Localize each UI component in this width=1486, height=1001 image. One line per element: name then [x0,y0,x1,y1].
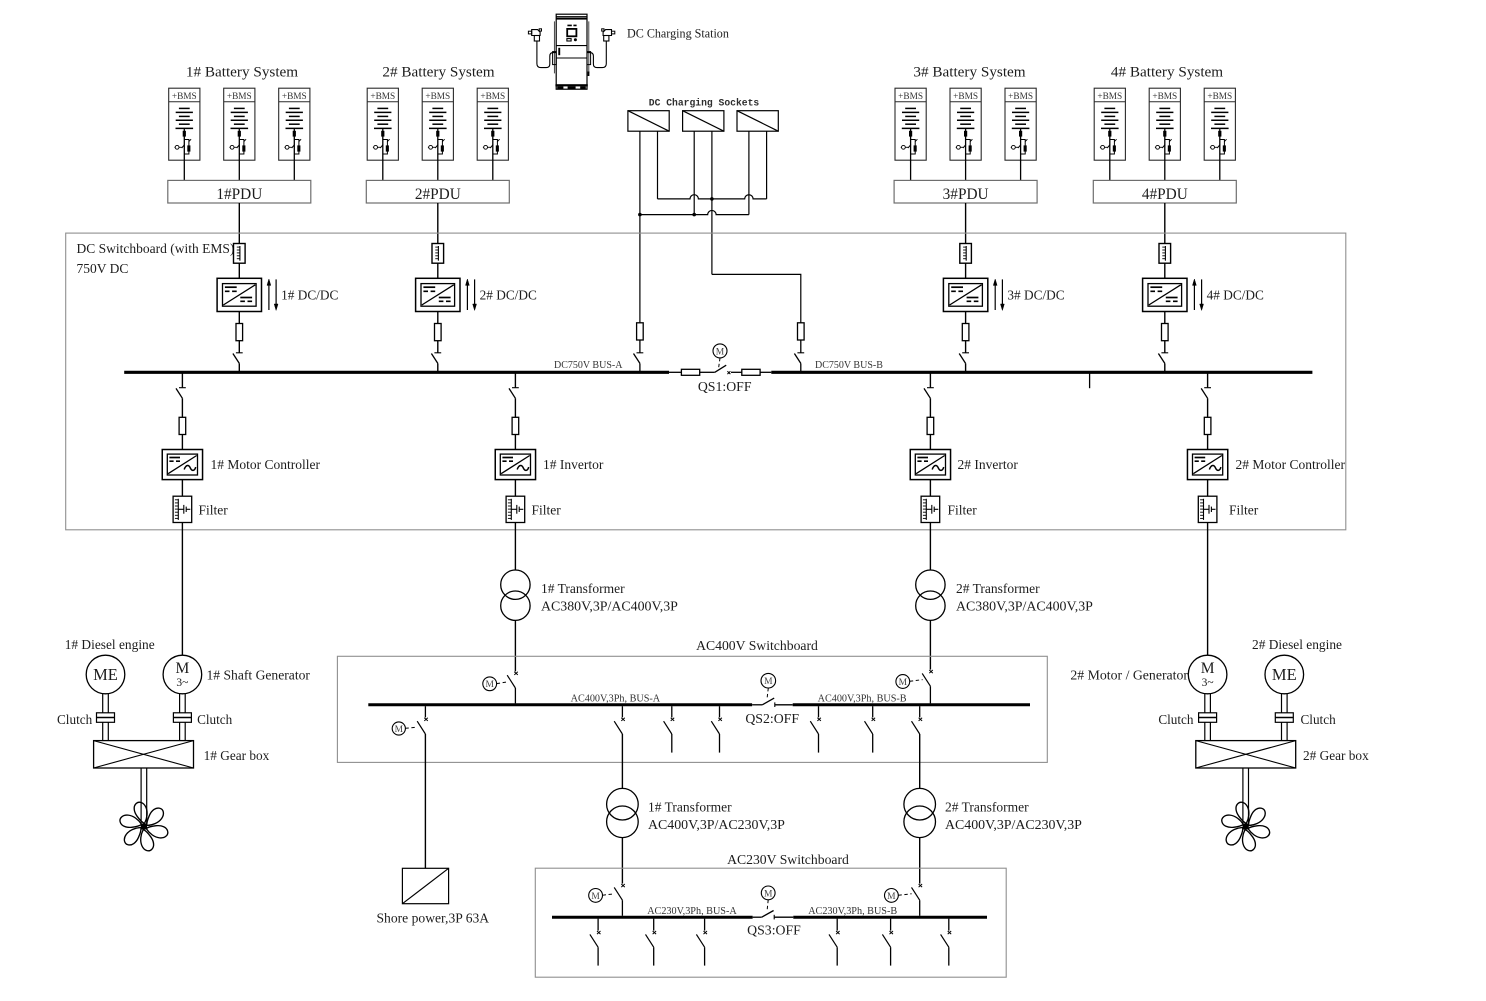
svg-text:1# Diesel engine: 1# Diesel engine [65,637,155,652]
svg-text:Clutch: Clutch [57,712,93,727]
svg-text:Filter: Filter [532,503,562,518]
wire fuse to switch 1# [238,341,240,353]
wire battery 4.3 to 4#PDU [1219,160,1221,180]
svg-text:AC230V,3Ph, BUS-B: AC230V,3Ph, BUS-B [808,906,897,917]
svg-text:Clutch: Clutch [1158,712,1194,727]
incomer breaker from T4 [919,884,923,887]
wire isolator to 2# DC/DC [437,263,439,278]
bus tie QS3 [753,911,794,920]
wire converter to filter (1# Motor Controller) [181,480,183,497]
wire bus to disconnector (1# Motor Controller) [181,374,183,388]
2# motor / generator M3~ [1188,655,1227,694]
motor operator incomer T3 [589,889,603,903]
AC230V spare feeder at x=890.6 [890,919,892,931]
svg-text:1#PDU: 1#PDU [216,186,262,203]
wire bus to disconnector (2# Invertor) [929,374,931,388]
incomer breaker from T3 [621,884,625,887]
svg-text:QS2:OFF: QS2:OFF [745,711,799,726]
4#PDU box [1093,180,1236,203]
svg-text:1# Transformer: 1# Transformer [648,799,732,814]
svg-text:2# DC/DC: 2# DC/DC [480,287,537,302]
switch chgB to bus B [797,352,804,354]
feeder to 2# 400/230 transformer [919,706,921,717]
svg-text:AC400V,3P/AC230V,3P: AC400V,3P/AC230V,3P [945,818,1082,833]
shaft ME2 to clutch [1281,694,1283,713]
svg-text:AC400V Switchboard: AC400V Switchboard [696,638,818,653]
disconnector 4# to DC bus [1161,352,1168,354]
svg-text:2# Battery System: 2# Battery System [382,63,494,80]
junction net-A at socket2 [692,213,696,217]
wire 2# DC/DC to fuse [437,312,439,324]
DC switchboard enclosure [66,233,1346,530]
svg-text:+BMS: +BMS [1207,92,1232,102]
wire fuse to switch 4# [1164,341,1166,353]
wire 2# motor controller filter to motor/generator [1207,523,1209,656]
wire socket1 right down [657,131,659,199]
shaft clutch to gearbox (ME1) [102,722,104,740]
wire 3#PDU to DC/DC input [965,203,967,244]
wire battery 4.2 to 4#PDU [1164,160,1166,180]
AC230V spare feeder at x=653.7 [653,919,655,931]
wire battery 3.1 to 3#PDU [910,160,912,180]
disconnector 1# Motor Controller [179,387,186,389]
svg-text:Filter: Filter [1229,503,1259,518]
shaft ME to clutch [102,694,104,713]
wire battery 2.2 to 2#PDU [437,160,439,180]
converter 1# Motor Controller [162,450,202,480]
wire 4#PDU to DC/DC input [1164,203,1166,244]
svg-text:M: M [764,677,773,687]
wire chgB fuse to switch [800,340,802,353]
1# shaft generator M3~ [163,655,202,694]
svg-text:3~: 3~ [1202,677,1214,689]
svg-text:AC400V,3Ph, BUS-A: AC400V,3Ph, BUS-A [571,694,661,705]
DC charging socket 1 [628,111,669,132]
battery module 4.3 [1204,88,1235,160]
svg-text:DC Switchboard (with EMS): DC Switchboard (with EMS) [77,241,235,256]
wire battery 1.3 to 1#PDU [293,160,295,180]
wire isolator to 4# DC/DC [1164,263,1166,278]
spare feeder B2 [872,706,874,717]
AC230V BUS-A [552,916,753,919]
svg-text:M: M [395,725,404,735]
wire converter to filter (2# Motor Controller) [1207,480,1209,497]
shaft generator to clutch [179,694,181,713]
svg-text:3#PDU: 3#PDU [943,186,989,203]
DC charging socket 3 [737,111,778,132]
bidirectional arrows 2# DC/DC [466,283,468,310]
propeller shaft 2 [1242,768,1244,824]
filter 1# Invertor [506,496,525,522]
2#PDU box [366,180,509,203]
svg-text:AC400V,3P/AC230V,3P: AC400V,3P/AC230V,3P [648,818,785,833]
AC230V switchboard enclosure [535,868,1006,977]
svg-text:+BMS: +BMS [1152,92,1177,102]
wire socket2 right down [711,131,713,199]
wire 3# DC/DC to fuse [965,312,967,324]
fuse 2# Motor Controller [1204,417,1211,434]
bus tie QS2 [752,698,793,707]
svg-text:+BMS: +BMS [1008,92,1033,102]
wire converter to filter (2# Invertor) [929,480,931,497]
1#PDU box [168,180,311,203]
svg-text:DC750V BUS-A: DC750V BUS-A [554,360,623,371]
svg-text:1# Motor Controller: 1# Motor Controller [211,457,321,472]
wire bus to disconnector (2# Motor Controller) [1207,374,1209,388]
wire fuse to switch 3# [965,341,967,353]
svg-text:2# Motor / Generator: 2# Motor / Generator [1070,668,1188,683]
wire battery 3.3 to 3#PDU [1020,160,1022,180]
DC charging station pictograph [528,14,614,89]
switch chgA to bus A [637,352,644,354]
svg-text:M: M [1201,660,1215,677]
svg-text:+BMS: +BMS [172,92,197,102]
1# gear box [94,741,194,768]
incomer breaker from T1 [514,672,518,675]
battery module 3.2 [950,88,981,160]
disconnector 3# to DC bus [962,352,969,354]
battery module 4.2 [1149,88,1180,160]
wire socket1 left to DC bus A fuse [639,131,641,323]
motor operator shore feeder [392,722,405,735]
wire socket3 right down [766,131,768,199]
converter 3# DC/DC [943,278,987,311]
battery module 1.1 [169,88,200,160]
svg-text:+BMS: +BMS [1097,92,1122,102]
wire isolator to 1# DC/DC [238,263,240,278]
svg-text:2# Diesel engine: 2# Diesel engine [1252,637,1342,652]
transformer T3 400/230 [607,788,639,820]
isolator 3# DC/DC input [960,244,972,264]
svg-text:QS3:OFF: QS3:OFF [747,923,801,938]
1# diesel engine ME [86,655,125,694]
wire 1#PDU to DC/DC input [238,203,240,244]
svg-text:DC Charging Station: DC Charging Station [627,27,729,41]
svg-text:+BMS: +BMS [227,92,252,102]
fuse 3# DC/DC output [962,324,969,341]
svg-text:3# Battery System: 3# Battery System [913,63,1025,80]
shaft clutch to gearbox (ME2) [1281,722,1283,740]
svg-text:2#PDU: 2#PDU [415,186,461,203]
AC400V BUS-B [793,703,1030,706]
svg-text:M: M [591,892,600,902]
svg-text:M: M [764,889,773,899]
motor operator QS3 [761,886,775,900]
svg-text:M: M [887,892,896,902]
svg-text:ME: ME [1272,665,1297,684]
propeller shaft 1 [140,768,142,824]
wire fuse to converter (2# Motor Controller) [1207,435,1209,450]
wire disconnector to fuse (2# Motor Controller) [1207,398,1209,417]
2# gear box [1196,741,1296,768]
clutch right of 1# gear box [173,713,191,723]
battery module 2.3 [477,88,508,160]
fuse 4# DC/DC output [1162,324,1169,341]
filter 2# Motor Controller [1198,496,1217,522]
svg-text:+BMS: +BMS [282,92,307,102]
svg-text:+BMS: +BMS [370,92,395,102]
wire fuse to converter (2# Invertor) [929,435,931,450]
svg-text:Filter: Filter [948,503,978,518]
fuse 1# Invertor [512,417,519,434]
AC230V spare feeder at x=948.8 [948,919,950,931]
clutch left of 2# gear box [1199,713,1217,723]
AC230V BUS-B [793,916,987,919]
svg-text:Clutch: Clutch [1301,712,1337,727]
motor operator QS2 [761,673,776,688]
wire T1 to AC400V incomer [514,620,516,671]
2# diesel engine ME [1265,655,1304,694]
svg-text:+BMS: +BMS [480,92,505,102]
svg-text:2# Invertor: 2# Invertor [958,457,1019,472]
shaft M2 to clutch [1204,694,1206,713]
transformer T4 400/230 [904,788,936,820]
wire 2#PDU to DC/DC input [437,203,439,244]
battery module 1.2 [224,88,255,160]
svg-text:1# Shaft Generator: 1# Shaft Generator [207,668,311,683]
clutch right of 2# gear box [1275,713,1293,723]
svg-text:3# DC/DC: 3# DC/DC [1007,287,1064,302]
wire disconnector to fuse (1# Invertor) [514,398,516,417]
AC230V spare feeder at x=837.2 [836,919,838,931]
wire fuse to converter (1# Invertor) [514,435,516,450]
bidirectional arrows 4# DC/DC [1193,283,1195,310]
AC400V BUS-A [368,703,752,706]
wire socket2 left down [693,131,695,214]
wire T3 to AC230V incomer [621,838,623,884]
wire battery 2.3 to 2#PDU [492,160,494,180]
svg-text:QS1:OFF: QS1:OFF [698,379,752,394]
svg-text:1# Gear box: 1# Gear box [204,748,270,763]
svg-text:DC750V BUS-B: DC750V BUS-B [815,360,883,371]
wire fuse to converter (1# Motor Controller) [181,435,183,450]
wire 2# invertor filter to 2# transformer [929,523,931,571]
battery module 3.3 [1005,88,1036,160]
shore power connection box [402,868,448,903]
svg-text:4# Battery System: 4# Battery System [1111,63,1223,80]
fuse F-chgA [637,323,644,340]
bidirectional arrows 1# DC/DC [268,283,270,310]
wire net-B elbow to bus B fuse [712,274,801,322]
bus tie QS1 [669,365,771,375]
propeller 2 [1220,800,1271,853]
svg-text:1# Battery System: 1# Battery System [186,63,298,80]
converter 2# Motor Controller [1187,450,1227,480]
fuse 2# Invertor [927,417,934,434]
wire T2 to AC400V incomer [929,620,931,669]
svg-text:M: M [485,680,494,690]
converter 1# Invertor [495,450,535,480]
wire 1# DC/DC to fuse [238,312,240,324]
wire isolator to 3# DC/DC [965,263,967,278]
wire battery 3.2 to 3#PDU [965,160,967,180]
AC400V switchboard enclosure [337,656,1047,762]
wire 1# motor controller filter to shaft generator [181,523,183,656]
svg-text:M: M [899,678,908,688]
svg-text:AC230V Switchboard: AC230V Switchboard [727,852,849,867]
wire chgA fuse to switch [639,340,641,353]
svg-text:2# Gear box: 2# Gear box [1303,748,1369,763]
clutch left of 1# gear box [97,713,115,723]
svg-text:1# Invertor: 1# Invertor [543,457,604,472]
DC750V BUS-A [124,371,669,374]
wire disconnector to fuse (2# Invertor) [929,398,931,417]
spare feeder A3 [719,706,721,717]
shaft clutch to gearbox (SG1) [179,722,181,740]
svg-text:1# DC/DC: 1# DC/DC [281,287,338,302]
svg-text:AC400V,3Ph, BUS-B: AC400V,3Ph, BUS-B [818,694,907,705]
wire T4 to AC230V incomer [919,838,921,884]
battery module 2.2 [422,88,453,160]
wire disconnector to fuse (1# Motor Controller) [181,398,183,417]
wire feeder down to T2-230 [919,734,921,788]
DC750V BUS-B [771,371,1312,374]
battery module 4.1 [1094,88,1125,160]
wire battery 2.1 to 2#PDU [382,160,384,180]
converter 1# DC/DC [217,278,261,311]
svg-text:+BMS: +BMS [898,92,923,102]
wire 4# DC/DC to fuse [1164,312,1166,324]
svg-text:4#PDU: 4#PDU [1142,186,1188,203]
wire feeder down to T1-230 [621,734,623,788]
transformer T2 380/400 [916,570,945,599]
svg-text:3~: 3~ [176,677,188,689]
DC charging socket 2 [683,111,724,132]
svg-text:2# Motor Controller: 2# Motor Controller [1236,457,1346,472]
wire 1# invertor filter to 1# transformer [514,523,516,571]
svg-text:2# Transformer: 2# Transformer [956,581,1040,596]
svg-text:Clutch: Clutch [197,712,233,727]
svg-text:AC230V,3Ph, BUS-A: AC230V,3Ph, BUS-A [647,906,737,917]
battery module 1.3 [279,88,310,160]
spare stub on bus B [1089,374,1091,389]
svg-text:ME: ME [93,665,118,684]
isolator 1# DC/DC input [234,244,246,264]
feeder shore power breaker [424,706,426,717]
3#PDU box [894,180,1037,203]
spare feeder A2 [671,706,673,717]
motor operator incomer T2 [896,675,910,689]
propeller 1 [118,800,169,853]
wire net-B vertical drop [711,199,713,275]
wire bus to disconnector (1# Invertor) [514,374,516,388]
svg-text:M: M [716,347,725,357]
fuse 2# DC/DC output [435,324,442,341]
svg-text:4# DC/DC: 4# DC/DC [1207,287,1264,302]
svg-text:AC380V,3P/AC400V,3P: AC380V,3P/AC400V,3P [541,599,678,614]
wire battery 1.1 to 1#PDU [183,160,185,180]
wire net-A horizontal with hop [640,210,749,214]
wire fuse to switch 2# [437,341,439,353]
feeder to 1# 400/230 transformer [621,706,623,717]
svg-text:M: M [176,660,190,677]
wire net-B horizontal with hops [658,195,767,199]
wire battery 4.1 to 4#PDU [1109,160,1111,180]
svg-text:2# Transformer: 2# Transformer [945,799,1029,814]
isolator 2# DC/DC input [432,244,444,264]
battery module 3.1 [895,88,926,160]
converter 4# DC/DC [1143,278,1187,311]
transformer T1 380/400 [501,570,530,599]
motor operator QS1 [713,344,727,358]
svg-text:Shore power,3P 63A: Shore power,3P 63A [377,910,490,925]
fuse 1# Motor Controller [179,417,186,434]
wire shore feeder down to shore power box [424,734,426,868]
spare feeder B1 [818,706,820,717]
svg-text:+BMS: +BMS [953,92,978,102]
converter 2# Invertor [910,450,950,480]
AC230V spare feeder at x=704.6 [704,919,706,931]
wire battery 1.2 to 1#PDU [238,160,240,180]
disconnector 2# to DC bus [434,352,441,354]
fuse F-chgB [798,323,805,340]
shaft clutch to gearbox (M2) [1204,722,1206,740]
svg-text:1# Transformer: 1# Transformer [541,581,625,596]
incomer breaker from T2 [929,670,933,673]
AC230V spare feeder at x=598.1 [597,919,599,931]
svg-text:750V DC: 750V DC [77,261,129,276]
disconnector 2# Motor Controller [1204,387,1211,389]
svg-text:Filter: Filter [199,503,229,518]
battery module 2.1 [367,88,398,160]
svg-text:+BMS: +BMS [425,92,450,102]
disconnector 1# to DC bus [236,352,243,354]
fuse 1# DC/DC output [236,324,243,341]
motor operator incomer T1 [483,677,497,691]
junction net-B at socket2 right [710,197,714,201]
filter 2# Invertor [921,496,940,522]
disconnector 2# Invertor [927,387,934,389]
converter 2# DC/DC [416,278,460,311]
filter 1# Motor Controller [173,496,192,522]
bidirectional arrows 3# DC/DC [994,283,996,310]
svg-text:DC Charging Sockets: DC Charging Sockets [649,97,760,108]
disconnector 1# Invertor [512,387,519,389]
junction net-A at socket1 [638,213,642,217]
isolator 4# DC/DC input [1159,244,1171,264]
svg-text:AC380V,3P/AC400V,3P: AC380V,3P/AC400V,3P [956,599,1093,614]
wire socket3 left down [748,131,750,214]
wire converter to filter (1# Invertor) [514,480,516,497]
motor operator incomer T4 [885,889,899,903]
